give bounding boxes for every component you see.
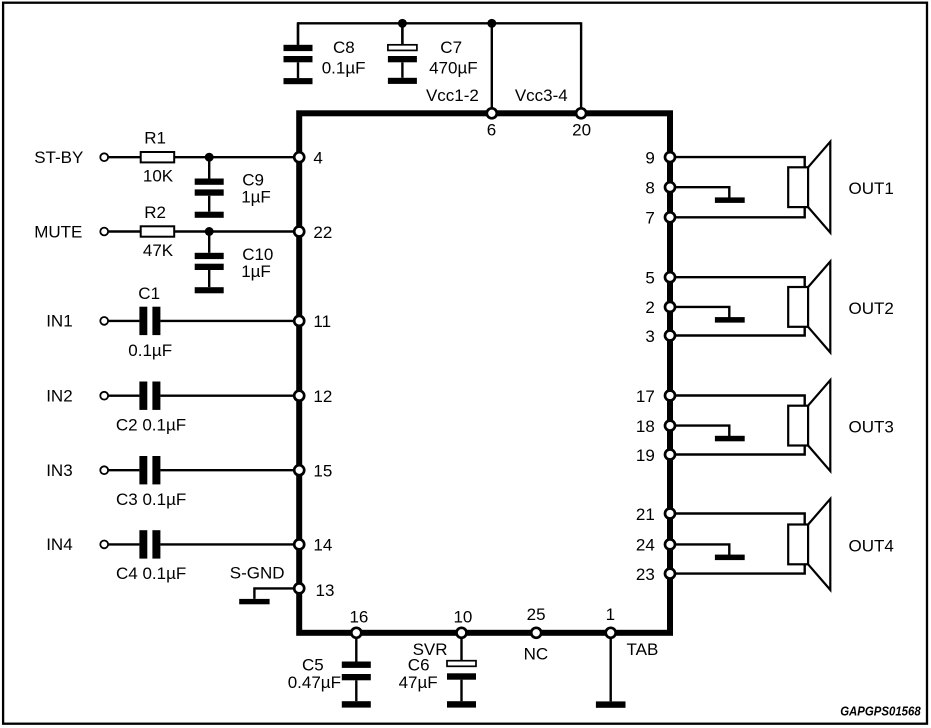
pin 21 [665, 509, 675, 519]
value C8 0.1µF [322, 59, 366, 78]
wire R2 to pin 22 [174, 230, 299, 232]
svg-text:0.1µF: 0.1µF [128, 341, 172, 360]
svg-text:OUT2: OUT2 [849, 299, 894, 318]
pin number 13 [316, 581, 335, 600]
capacitor C10 [195, 253, 224, 287]
wire pin 3 to speaker OUT2 - [675, 326, 805, 336]
wire pin 8 to ground [675, 187, 729, 198]
wire pin 16 to C5 [355, 633, 357, 662]
capacitor C8 [284, 23, 313, 78]
wire pin 1 to ground [610, 633, 612, 702]
pin 20 [576, 108, 586, 118]
ground at OUT1 [715, 197, 745, 203]
node Vcc junction at C7 [398, 19, 407, 28]
pin 5 [665, 272, 675, 282]
svg-text:IN2: IN2 [46, 386, 72, 405]
wire C10 stem [208, 232, 210, 253]
pin number 5 [645, 269, 654, 288]
resistor R2 [141, 226, 175, 236]
ground TAB [596, 701, 626, 707]
net label IN2 [46, 386, 72, 405]
ground C10 [195, 287, 224, 293]
value C9 1µF [241, 188, 271, 207]
ground at OUT3 [715, 436, 745, 442]
ground C9 [195, 212, 224, 218]
label R1 [144, 129, 166, 148]
net label NC [524, 644, 549, 663]
capacitor C9 [195, 179, 224, 212]
terminal IN2 [100, 392, 108, 400]
speaker OUT3 [788, 380, 830, 471]
pin number 14 [313, 536, 332, 555]
svg-text:47µF: 47µF [399, 673, 438, 692]
pin 18 [665, 421, 675, 431]
label C1 [138, 284, 160, 303]
pin 2 [665, 302, 675, 312]
svg-text:S-GND: S-GND [230, 563, 285, 582]
pin 13 [294, 583, 304, 593]
ground S-GND [239, 599, 269, 604]
capacitor C1 [139, 307, 160, 335]
net label OUT2 [849, 299, 894, 318]
svg-text:47K: 47K [143, 241, 174, 260]
ground C6 [447, 701, 476, 707]
net label SVR [413, 640, 448, 659]
svg-text:R2: R2 [144, 203, 166, 222]
net label IN4 [46, 535, 72, 554]
svg-text:TAB: TAB [627, 640, 659, 659]
pin 9 [665, 152, 675, 162]
pin number 4 [313, 149, 322, 168]
terminal IN1 [100, 317, 108, 325]
speaker OUT1 [788, 142, 830, 233]
wire C1 to pin 11 [160, 320, 299, 322]
pin 6 [487, 108, 497, 118]
svg-text:16: 16 [349, 608, 368, 627]
wire IN4 to cap [108, 543, 139, 545]
wire IN1 to cap [108, 320, 139, 322]
ground C7 [388, 78, 417, 84]
pin number 18 [636, 417, 655, 436]
node Vcc junction at pin 6 [487, 19, 496, 28]
wire C2 to pin 12 [160, 395, 299, 397]
wire R1 to pin 4 [174, 156, 299, 158]
figure tag GAPGPS01568 [840, 704, 921, 719]
svg-text:IN4: IN4 [46, 535, 72, 554]
capacitor C7 [388, 23, 417, 78]
value R1 10K [143, 167, 174, 186]
pin 25 [531, 628, 541, 638]
svg-text:17: 17 [636, 387, 655, 406]
svg-text:C1: C1 [138, 284, 160, 303]
wire pin 24 to ground [675, 544, 729, 555]
svg-text:OUT3: OUT3 [849, 418, 894, 437]
wire pin 9 to speaker OUT1 + [675, 157, 805, 168]
pin 10 [457, 628, 467, 638]
value C3 [116, 490, 186, 509]
label C6 [408, 655, 430, 674]
svg-text:11: 11 [313, 312, 331, 331]
svg-text:MUTE: MUTE [34, 223, 82, 242]
pin 11 [294, 316, 304, 326]
net label Vcc3-4 [515, 86, 568, 105]
svg-text:1µF: 1µF [241, 188, 271, 207]
pin 3 [665, 331, 675, 341]
ground C5 [342, 701, 371, 707]
net label OUT3 [849, 418, 894, 437]
op-amp IC body (quad amplifier) [299, 113, 670, 633]
svg-text:12: 12 [313, 387, 332, 406]
svg-text:OUT4: OUT4 [849, 536, 894, 555]
value R2 47K [143, 241, 174, 260]
pin 24 [665, 539, 675, 549]
svg-text:5: 5 [645, 269, 654, 288]
svg-text:C5: C5 [302, 655, 324, 674]
ground C8 [284, 78, 313, 84]
pin number 21 [636, 505, 655, 524]
capacitor C6 [447, 661, 476, 702]
pin number 25 [527, 605, 546, 624]
svg-text:C7: C7 [440, 38, 462, 57]
svg-text:25: 25 [527, 605, 546, 624]
svg-text:4: 4 [313, 149, 322, 168]
speaker OUT2 [788, 261, 830, 352]
pin number 1 [606, 605, 615, 624]
pin number 19 [636, 446, 655, 465]
value C1 [128, 341, 172, 360]
svg-text:2: 2 [645, 298, 654, 317]
svg-text:18: 18 [636, 417, 655, 436]
pin number 24 [636, 536, 655, 555]
svg-text:15: 15 [313, 462, 332, 481]
pin 22 [294, 227, 304, 237]
svg-text:10: 10 [453, 608, 472, 627]
pin number 9 [645, 148, 654, 167]
capacitor C2 [139, 382, 160, 410]
wire C7 drop [401, 23, 403, 45]
pin number 7 [645, 209, 654, 228]
net label Vcc1-2 [426, 86, 479, 105]
wire ST-BY to R1 [108, 156, 140, 158]
pin 16 [351, 628, 361, 638]
svg-text:0.47µF: 0.47µF [288, 673, 341, 692]
terminal ST-BY [100, 153, 108, 161]
resistor R1 [141, 152, 175, 162]
pin number 22 [313, 223, 332, 242]
wire pin 17 to speaker OUT3 + [675, 396, 805, 407]
label C7 [440, 38, 462, 57]
svg-text:C4 0.1µF: C4 0.1µF [116, 564, 186, 583]
label C8 [333, 38, 355, 57]
pin 19 [665, 450, 675, 460]
svg-text:9: 9 [645, 148, 654, 167]
pin number 8 [645, 179, 654, 198]
ground at OUT2 [715, 317, 745, 323]
svg-text:0.1µF: 0.1µF [322, 59, 366, 78]
pin number 17 [636, 387, 655, 406]
svg-text:1: 1 [606, 605, 615, 624]
value C5 0.47µF [288, 673, 341, 692]
wire pin 19 to speaker OUT3 - [675, 445, 805, 455]
ground at OUT4 [715, 555, 745, 561]
pin number 6 [487, 120, 496, 139]
net label MUTE [34, 223, 82, 242]
pin number 15 [313, 462, 332, 481]
terminal IN4 [100, 541, 108, 549]
svg-text:GAPGPS01568: GAPGPS01568 [840, 704, 921, 719]
node junction R2/C10 [205, 227, 214, 236]
pin 17 [665, 391, 675, 401]
wire C9 stem [208, 157, 210, 178]
pin 14 [294, 539, 304, 549]
label C5 [302, 655, 324, 674]
wire C3 to pin 15 [160, 469, 299, 471]
net label ST-BY [34, 148, 83, 167]
pin 15 [294, 465, 304, 475]
pin 23 [665, 569, 675, 579]
wire pin 20 drop [580, 22, 582, 113]
pin number 2 [645, 298, 654, 317]
capacitor C3 [139, 456, 160, 484]
svg-text:OUT1: OUT1 [849, 179, 894, 198]
svg-text:7: 7 [645, 209, 654, 228]
svg-text:20: 20 [572, 120, 591, 139]
svg-text:Vcc1-2: Vcc1-2 [426, 86, 479, 105]
svg-text:23: 23 [636, 565, 655, 584]
label C10 [242, 245, 273, 264]
pin 8 [665, 182, 675, 192]
wire pin 18 to ground [675, 426, 729, 437]
capacitor C5 [342, 662, 371, 702]
pin 12 [294, 391, 304, 401]
node junction R1/C9 [205, 153, 214, 162]
net label IN1 [46, 312, 72, 331]
capacitor C4 [139, 530, 160, 558]
net label S-GND [230, 563, 285, 582]
net label TAB [627, 640, 659, 659]
svg-text:8: 8 [645, 179, 654, 198]
value C10 1µF [241, 262, 271, 281]
svg-text:C8: C8 [333, 38, 355, 57]
label R2 [144, 203, 166, 222]
wire MUTE to R2 [108, 230, 140, 232]
svg-text:6: 6 [487, 120, 496, 139]
svg-text:3: 3 [645, 327, 654, 346]
wire Vcc supply bus [298, 22, 581, 24]
pin 1 [606, 628, 616, 638]
terminal MUTE [100, 228, 108, 236]
svg-text:21: 21 [636, 505, 655, 524]
svg-text:470µF: 470µF [429, 59, 478, 78]
svg-text:13: 13 [316, 581, 335, 600]
net label OUT4 [849, 536, 894, 555]
wire pin 10 to C6 [460, 633, 462, 661]
value C2 [116, 416, 186, 435]
svg-text:24: 24 [636, 536, 655, 555]
svg-text:19: 19 [636, 446, 655, 465]
svg-text:1µF: 1µF [241, 262, 271, 281]
svg-text:R1: R1 [144, 129, 166, 148]
wire pin 5 to speaker OUT2 + [675, 277, 805, 288]
wire pin 13 to S-GND ground [254, 588, 294, 599]
svg-text:14: 14 [313, 536, 332, 555]
pin 4 [294, 152, 304, 162]
wire pin 23 to speaker OUT4 - [675, 563, 805, 573]
wire IN3 to cap [108, 469, 139, 471]
label C9 [242, 171, 264, 190]
svg-text:Vcc3-4: Vcc3-4 [515, 86, 568, 105]
pin number 11 [313, 312, 331, 331]
wire IN2 to cap [108, 395, 139, 397]
pin number 16 [349, 608, 368, 627]
pin number 12 [313, 387, 332, 406]
svg-text:IN3: IN3 [46, 461, 72, 480]
pin number 3 [645, 327, 654, 346]
value C7 470µF [429, 59, 478, 78]
svg-text:C6: C6 [408, 655, 430, 674]
value C4 [116, 564, 186, 583]
wire C8 drop [297, 22, 299, 45]
svg-text:NC: NC [524, 644, 549, 663]
wire pin 7 to speaker OUT1 - [675, 206, 805, 217]
wire pin 6 drop [491, 23, 493, 113]
value C6 47µF [399, 673, 438, 692]
wire pin 2 to ground [675, 307, 729, 318]
net label OUT1 [849, 179, 894, 198]
pin number 10 [453, 608, 472, 627]
wire C4 to pin 14 [160, 543, 299, 545]
svg-text:IN1: IN1 [46, 312, 72, 331]
pin number 23 [636, 565, 655, 584]
svg-text:C3 0.1µF: C3 0.1µF [116, 490, 186, 509]
svg-text:C2 0.1µF: C2 0.1µF [116, 416, 186, 435]
svg-text:10K: 10K [143, 167, 174, 186]
terminal IN3 [100, 466, 108, 474]
speaker OUT4 [788, 499, 830, 590]
pin 7 [665, 212, 675, 222]
net label IN3 [46, 461, 72, 480]
wire pin 21 to speaker OUT4 + [675, 514, 805, 526]
svg-text:22: 22 [313, 223, 332, 242]
pin number 20 [572, 120, 591, 139]
svg-text:ST-BY: ST-BY [34, 148, 83, 167]
